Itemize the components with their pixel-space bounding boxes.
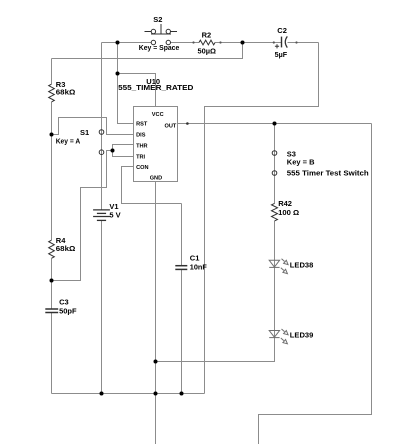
svg-text:CON: CON	[136, 165, 148, 171]
svg-text:VCC: VCC	[152, 112, 164, 118]
svg-text:Key = B: Key = B	[287, 157, 315, 166]
svg-text:C3: C3	[59, 297, 69, 306]
svg-text:68kΩ: 68kΩ	[56, 244, 76, 253]
svg-text:50pF: 50pF	[59, 306, 77, 315]
svg-text:OUT: OUT	[165, 124, 177, 130]
svg-text:68kΩ: 68kΩ	[56, 88, 76, 97]
svg-text:LED38: LED38	[290, 260, 314, 269]
svg-text:C2: C2	[277, 26, 287, 35]
svg-text:555 Timer Test Switch: 555 Timer Test Switch	[287, 168, 369, 177]
svg-text:RST: RST	[136, 121, 148, 127]
svg-text:V1: V1	[109, 202, 118, 211]
svg-text:10nF: 10nF	[190, 263, 207, 272]
svg-text:S2: S2	[153, 15, 162, 24]
svg-text:R2: R2	[202, 30, 212, 39]
svg-text:50µΩ: 50µΩ	[198, 47, 217, 56]
svg-text:S1: S1	[80, 128, 89, 137]
svg-text:Key = A: Key = A	[56, 136, 81, 145]
svg-text:TRI: TRI	[136, 154, 145, 160]
svg-text:GND: GND	[150, 175, 162, 181]
svg-text:LED39: LED39	[290, 330, 314, 339]
svg-text:R42: R42	[278, 199, 292, 208]
svg-text:DIS: DIS	[136, 132, 146, 138]
svg-text:THR: THR	[136, 144, 148, 150]
svg-text:Key = Space: Key = Space	[139, 43, 180, 52]
svg-text:5 V: 5 V	[109, 211, 120, 220]
svg-text:C1: C1	[190, 254, 200, 263]
svg-text:100 Ω: 100 Ω	[278, 208, 299, 217]
svg-text:5µF: 5µF	[275, 50, 288, 59]
svg-text:555_TIMER_RATED: 555_TIMER_RATED	[118, 83, 194, 92]
